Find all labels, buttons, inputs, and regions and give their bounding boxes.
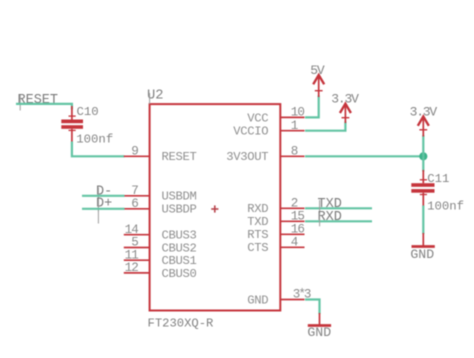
pin 12 CBUS0 [124, 261, 197, 281]
wire C11 bottom to GND [422, 206, 424, 235]
svg-text:GND: GND [410, 247, 434, 262]
pin 7 USBDM [124, 184, 197, 204]
capacitor C10 [61, 105, 113, 147]
svg-text:VCC: VCC [247, 111, 268, 125]
svg-text:6: 6 [131, 197, 138, 211]
wire 3V3OUT net pin8 to junction [305, 155, 423, 157]
IC origin cross [211, 205, 218, 212]
wire VCCIO net to 3.3V [305, 122, 345, 131]
svg-text:USBDM: USBDM [162, 190, 197, 204]
node RXD net label [318, 210, 342, 226]
svg-text:15: 15 [291, 210, 305, 224]
junction dot [419, 152, 427, 160]
pin 4 CTS [247, 236, 304, 256]
IC U2 outline [150, 104, 281, 310]
supply 3.3V symbol (left) [331, 92, 359, 123]
wire junction down to C11 [422, 156, 424, 171]
wire VCC net to 5V [305, 96, 319, 118]
wire from C10 bottom to pin 9 [72, 142, 125, 157]
pin 15 TXD [247, 210, 304, 230]
svg-text:CTS: CTS [247, 241, 268, 255]
wire RXD net [305, 220, 372, 222]
svg-text:GND: GND [247, 293, 268, 307]
svg-text:7: 7 [131, 184, 138, 198]
pin 16 RTS [247, 223, 304, 243]
svg-text:C10: C10 [77, 105, 99, 119]
svg-text:VCCIO: VCCIO [233, 125, 268, 139]
IC U2 name [147, 89, 164, 104]
pin 10 VCC [247, 106, 304, 126]
svg-text:USBDP: USBDP [162, 203, 197, 217]
wire GND net from pin 3*3 [305, 300, 320, 315]
node RESET net label [18, 93, 59, 110]
pin 5 CBUS2 [124, 236, 197, 256]
pin 8 3V3OUT [226, 145, 304, 165]
svg-text:GND: GND [307, 325, 331, 340]
svg-text:RXD: RXD [247, 202, 268, 216]
svg-text:3V3OUT: 3V3OUT [226, 150, 268, 164]
ground GND (under C11) [410, 233, 434, 262]
svg-text:RESET: RESET [18, 93, 59, 108]
pin 2 RXD [247, 197, 304, 217]
svg-text:RESET: RESET [162, 150, 197, 164]
svg-text:TXD: TXD [247, 215, 268, 229]
pin 3*3 GND [247, 288, 311, 308]
supply 5V symbol [310, 63, 325, 97]
svg-text:3.3V: 3.3V [331, 92, 359, 107]
wire TXD net [305, 207, 372, 209]
svg-text:100nf: 100nf [76, 133, 113, 147]
svg-text:FT230XQ-R: FT230XQ-R [148, 316, 214, 330]
svg-text:9: 9 [131, 144, 138, 158]
pin 6 USBDP [124, 197, 197, 217]
pin 11 CBUS1 [124, 248, 197, 268]
pin 14 CBUS3 [124, 223, 197, 243]
svg-text:RXD: RXD [318, 210, 342, 225]
svg-text:12: 12 [125, 261, 139, 275]
svg-text:CBUS0: CBUS0 [162, 267, 197, 281]
svg-text:4: 4 [291, 236, 298, 250]
svg-text:RTS: RTS [247, 228, 268, 242]
svg-text:C11: C11 [427, 172, 449, 186]
svg-text:8: 8 [291, 145, 298, 159]
capacitor C11 [411, 170, 464, 213]
svg-text:2: 2 [291, 197, 298, 211]
svg-text:5V: 5V [310, 63, 325, 78]
node TXD net label [318, 197, 342, 213]
svg-text:10: 10 [291, 106, 305, 120]
supply 3.3V symbol (right) [410, 104, 438, 136]
node D- net label [96, 185, 112, 212]
svg-text:16: 16 [291, 223, 305, 237]
wire junction up to 3.3V [422, 135, 424, 156]
svg-text:1: 1 [291, 119, 298, 133]
ground GND (chip) [307, 313, 331, 340]
wire D- net [82, 195, 125, 197]
pin 1 VCCIO [233, 119, 304, 139]
wire D+ net [82, 208, 125, 210]
pin 9 RESET [124, 144, 197, 164]
wire RESET net from label to C10 top [16, 104, 72, 110]
node D+ net label [96, 197, 112, 224]
svg-text:3.3V: 3.3V [410, 104, 438, 119]
svg-text:100nf: 100nf [427, 199, 464, 213]
